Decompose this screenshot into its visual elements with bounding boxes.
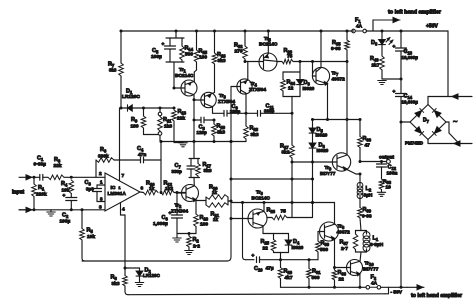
svg-text:1: 1 bbox=[100, 180, 103, 185]
svg-text:22: 22 bbox=[263, 246, 269, 252]
ground R38 bbox=[377, 191, 385, 193]
wire bridge top to +rail and AC input 1 bbox=[427, 97, 429, 105]
svg-text:D1: D1 bbox=[126, 89, 133, 95]
svg-text:R35: R35 bbox=[332, 40, 341, 46]
svg-text:75: 75 bbox=[281, 209, 287, 215]
svg-text:1k8: 1k8 bbox=[164, 124, 172, 130]
resistor R29 bbox=[280, 260, 282, 268]
svg-text:+: + bbox=[252, 254, 255, 259]
capacitor C5 bbox=[175, 31, 177, 38]
svg-text:R3: R3 bbox=[54, 157, 61, 163]
inductor L2 bbox=[359, 174, 361, 184]
capacitor C10 bbox=[256, 257, 258, 263]
svg-text:R33: R33 bbox=[338, 270, 347, 276]
svg-text:1k: 1k bbox=[213, 217, 219, 222]
svg-text:BDY77: BDY77 bbox=[320, 171, 336, 177]
svg-text:1k: 1k bbox=[212, 190, 218, 195]
wire bias rail bbox=[313, 119, 361, 121]
svg-text:75: 75 bbox=[287, 54, 293, 60]
transistor Tr5 bbox=[259, 53, 277, 71]
svg-text:270: 270 bbox=[235, 49, 243, 55]
resistor R27 bbox=[290, 145, 295, 158]
svg-text:10,000µ: 10,000µ bbox=[402, 100, 419, 105]
capacitor C11 bbox=[246, 112, 258, 114]
svg-text:+50V: +50V bbox=[426, 24, 438, 30]
wire top +50V rail bbox=[121, 30, 354, 32]
svg-text:4A: 4A bbox=[356, 24, 363, 30]
resistor R10 bbox=[144, 190, 159, 195]
svg-text:R8: R8 bbox=[111, 275, 118, 281]
wire input lower line to pin3 bbox=[19, 209, 105, 211]
wire Tr6 collector to R25 D4 bbox=[263, 233, 289, 235]
resistor R25 bbox=[273, 234, 275, 240]
wire R22 to Tr5 base and Tr4 emitter bbox=[244, 60, 247, 63]
op-amp IC1 LM301A bbox=[105, 173, 140, 211]
wire to op-amp pin2 bbox=[70, 176, 73, 179]
svg-text:output: output bbox=[379, 155, 394, 161]
resistor R12 bbox=[161, 190, 174, 195]
wire feedback node vertical bbox=[160, 142, 162, 193]
svg-text:C2: C2 bbox=[62, 213, 69, 219]
svg-text:100µ: 100µ bbox=[60, 219, 71, 225]
op-amp pin1 pin8 comp cap C3 bbox=[97, 184, 105, 186]
resistor R4 bbox=[70, 179, 72, 181]
wire node to R13 column bbox=[144, 107, 175, 109]
svg-text:10: 10 bbox=[386, 185, 392, 191]
node line C9 C11 bbox=[213, 112, 225, 114]
svg-text:L2: L2 bbox=[366, 186, 372, 192]
svg-text:0·68µ: 0·68µ bbox=[34, 162, 47, 168]
capacitor C8 bbox=[194, 119, 201, 121]
wire R16 bottom link bbox=[177, 233, 196, 235]
svg-text:Tr9: Tr9 bbox=[325, 165, 333, 171]
inductor L1 with R37 bbox=[356, 230, 367, 232]
svg-text:3k3: 3k3 bbox=[217, 130, 225, 136]
svg-text:input: input bbox=[12, 190, 25, 196]
svg-text:R26: R26 bbox=[284, 48, 293, 54]
svg-text:Tr1: Tr1 bbox=[179, 67, 187, 73]
transistor Tr7 bbox=[312, 67, 329, 84]
diode D8 LED bbox=[381, 31, 383, 40]
svg-text:Tr3: Tr3 bbox=[219, 93, 227, 99]
transistor Tr1 bbox=[181, 80, 197, 96]
resistor R39 bbox=[359, 198, 361, 208]
svg-text:2k7: 2k7 bbox=[372, 63, 380, 69]
resistor R24 bbox=[283, 71, 300, 73]
svg-text:6: 6 bbox=[141, 186, 144, 192]
capacitor C13 bbox=[400, 31, 402, 48]
transistor Tr3 bbox=[201, 92, 216, 107]
svg-text:10k: 10k bbox=[87, 234, 95, 240]
svg-text:560: 560 bbox=[312, 275, 320, 281]
svg-text:F1: F1 bbox=[355, 18, 361, 24]
resistor R6 feedback bbox=[95, 160, 97, 177]
op-amp pin6 output stub bbox=[140, 191, 144, 194]
svg-text:BDY77: BDY77 bbox=[363, 267, 379, 273]
capacitor C1 bbox=[33, 176, 36, 179]
resistor R13 bbox=[172, 110, 177, 121]
svg-text:330k: 330k bbox=[98, 154, 109, 160]
resistor R16 bbox=[194, 214, 199, 227]
svg-text:R39: R39 bbox=[363, 207, 372, 213]
op-amp pin4 wire bbox=[120, 203, 122, 216]
ground C6 bbox=[173, 237, 181, 239]
svg-text:BC214C: BC214C bbox=[259, 42, 278, 48]
svg-text:L1: L1 bbox=[373, 236, 379, 242]
svg-text:R36: R36 bbox=[363, 136, 372, 142]
svg-text:Tr10: Tr10 bbox=[365, 261, 375, 267]
svg-text:R31: R31 bbox=[312, 269, 321, 275]
diode D6 bbox=[309, 143, 316, 148]
svg-text:C6: C6 bbox=[162, 215, 169, 221]
svg-text:C10: C10 bbox=[254, 266, 263, 272]
diode D1 bbox=[120, 107, 123, 110]
wire AC input 2 bbox=[446, 121, 449, 123]
svg-text:R24: R24 bbox=[287, 80, 296, 86]
svg-text:R27: R27 bbox=[280, 144, 289, 150]
svg-text:2·2: 2·2 bbox=[193, 244, 200, 250]
svg-text:~: ~ bbox=[453, 117, 458, 126]
transistor Tr4 bbox=[237, 79, 252, 94]
svg-text:180: 180 bbox=[200, 222, 208, 228]
resistor R8 bbox=[124, 268, 126, 276]
svg-text:LR120C: LR120C bbox=[122, 94, 140, 100]
svg-text:IS920: IS920 bbox=[292, 245, 304, 250]
svg-text:3: 3 bbox=[99, 205, 102, 211]
svg-text:R37: R37 bbox=[340, 240, 349, 246]
svg-text:R13: R13 bbox=[178, 109, 187, 115]
resistor R36 bbox=[359, 120, 361, 137]
svg-text:R14: R14 bbox=[185, 46, 194, 52]
svg-text:10k: 10k bbox=[62, 188, 70, 194]
svg-text:47: 47 bbox=[365, 143, 371, 149]
svg-text:330p: 330p bbox=[172, 169, 183, 174]
svg-text:D7: D7 bbox=[423, 118, 430, 124]
wire Tr2 emitter bbox=[195, 200, 197, 214]
svg-text:100µ: 100µ bbox=[151, 54, 162, 60]
ground PSU 0V bbox=[382, 78, 401, 80]
transistor Tr2 bbox=[182, 185, 199, 202]
wire bias chain R24/D3 to R27 bbox=[291, 97, 293, 114]
svg-text:100n: 100n bbox=[387, 171, 398, 177]
svg-text:LR120C: LR120C bbox=[143, 273, 161, 278]
resistor R22 bbox=[244, 31, 246, 46]
svg-text:+: + bbox=[63, 194, 66, 199]
svg-text:R25: R25 bbox=[261, 239, 270, 245]
svg-text:1k: 1k bbox=[149, 186, 155, 192]
resistor R19 bbox=[213, 120, 215, 124]
resistor R2 bbox=[188, 234, 190, 237]
svg-text:R22: R22 bbox=[234, 43, 243, 49]
transistor Tr10 bbox=[347, 260, 363, 276]
svg-text:330p: 330p bbox=[230, 109, 241, 114]
svg-text:Tr7: Tr7 bbox=[332, 71, 340, 77]
wire -50V rail bbox=[281, 286, 367, 288]
fuse F1 bbox=[355, 30, 363, 32]
svg-text:1k2: 1k2 bbox=[165, 186, 173, 192]
resistor R1 bbox=[33, 177, 35, 184]
svg-text:3µH: 3µH bbox=[364, 193, 373, 199]
svg-text:C4: C4 bbox=[137, 146, 144, 152]
resistors R20 R21 parallel bbox=[205, 197, 207, 205]
svg-text:40872: 40872 bbox=[332, 77, 346, 83]
svg-text:+: + bbox=[393, 45, 396, 50]
wire pin4 R8 D2 node bbox=[124, 267, 127, 270]
svg-text:22k: 22k bbox=[54, 163, 62, 169]
svg-text:IS920: IS920 bbox=[316, 133, 328, 138]
svg-text:R16: R16 bbox=[200, 215, 209, 221]
wire Tr7 base tap bbox=[312, 62, 314, 77]
resistor R38 bbox=[379, 179, 384, 190]
svg-text:R1: R1 bbox=[38, 185, 45, 191]
svg-text:6·9µH: 6·9µH bbox=[370, 242, 384, 248]
svg-text:10,000µ: 10,000µ bbox=[402, 55, 419, 60]
svg-text:4k7: 4k7 bbox=[285, 275, 293, 281]
svg-text:7: 7 bbox=[122, 173, 125, 179]
ground input bbox=[50, 210, 52, 212]
svg-text:ZTX504: ZTX504 bbox=[249, 87, 266, 93]
output node bbox=[359, 160, 362, 163]
wire op-amp pin7 supply bbox=[119, 108, 121, 181]
svg-text:47µ: 47µ bbox=[266, 266, 274, 272]
ground R13 bbox=[179, 142, 187, 144]
svg-text:C1: C1 bbox=[37, 156, 44, 162]
resistor R31 bbox=[308, 260, 310, 269]
svg-text:LM301A: LM301A bbox=[108, 191, 127, 197]
svg-text:180: 180 bbox=[131, 124, 139, 130]
svg-text:Tr8: Tr8 bbox=[338, 224, 346, 230]
svg-text:R5: R5 bbox=[87, 228, 94, 234]
transistor Tr9 bbox=[332, 153, 350, 171]
resistor R5 bbox=[81, 208, 84, 211]
svg-text:3k3: 3k3 bbox=[251, 132, 259, 138]
svg-text:PM74ED: PM74ED bbox=[405, 141, 424, 146]
svg-text:R15: R15 bbox=[199, 49, 208, 55]
diode D5 bbox=[312, 120, 314, 129]
svg-text:22k: 22k bbox=[177, 116, 185, 122]
diode D4 bbox=[288, 234, 290, 241]
svg-text:R23: R23 bbox=[250, 126, 259, 132]
resistor R14 bbox=[181, 38, 183, 46]
svg-text:C3: C3 bbox=[85, 180, 92, 186]
svg-text:R12: R12 bbox=[164, 181, 173, 187]
fuse F2 bbox=[370, 286, 378, 288]
svg-text:R38: R38 bbox=[383, 179, 392, 185]
svg-text:4: 4 bbox=[122, 207, 125, 213]
svg-text:R29: R29 bbox=[284, 269, 293, 275]
svg-text:1,000µ: 1,000µ bbox=[153, 221, 168, 227]
svg-text:to left hand amplifier: to left hand amplifier bbox=[388, 10, 442, 16]
svg-text:Tr6: Tr6 bbox=[256, 190, 264, 196]
svg-text:to left hand amplifier: to left hand amplifier bbox=[411, 293, 462, 299]
svg-text:3k3: 3k3 bbox=[109, 68, 117, 73]
wire y202 link bbox=[230, 201, 232, 203]
wire y179 link bbox=[231, 178, 313, 180]
svg-text:0·08: 0·08 bbox=[331, 46, 341, 52]
resistor R7 bbox=[120, 31, 122, 63]
capacitor C6 bbox=[176, 193, 178, 215]
input terminals bbox=[19, 176, 33, 178]
svg-text:R6: R6 bbox=[100, 147, 107, 153]
svg-text:D8: D8 bbox=[371, 40, 378, 46]
ground R2 bbox=[185, 250, 193, 252]
svg-text:R18: R18 bbox=[217, 52, 226, 58]
svg-text:560: 560 bbox=[320, 247, 328, 253]
svg-text:4A: 4A bbox=[371, 281, 378, 287]
svg-text:R19: R19 bbox=[217, 124, 226, 130]
capacitor C9 bbox=[223, 111, 225, 117]
svg-text:0·08: 0·08 bbox=[362, 214, 372, 220]
svg-text:3k3: 3k3 bbox=[112, 281, 120, 287]
svg-text:120p: 120p bbox=[197, 130, 208, 135]
capacitor C12 bbox=[380, 160, 383, 163]
wire Tr9 base line bbox=[292, 161, 337, 163]
svg-text:BC214C: BC214C bbox=[175, 73, 194, 79]
wire C10 line bbox=[243, 203, 246, 260]
svg-text:40872: 40872 bbox=[337, 230, 351, 236]
svg-text:+: + bbox=[162, 43, 165, 48]
resistor R18 bbox=[214, 31, 216, 53]
svg-text:8: 8 bbox=[100, 197, 103, 202]
resistor R3 bbox=[48, 175, 64, 180]
svg-text:Tr2: Tr2 bbox=[175, 203, 183, 209]
svg-text:47n: 47n bbox=[138, 152, 146, 158]
capacitor C2 bbox=[66, 197, 77, 199]
svg-text:R40: R40 bbox=[370, 56, 379, 62]
svg-text:560: 560 bbox=[185, 52, 193, 58]
capacitor C7 / resistor R17 parallel bbox=[193, 142, 195, 159]
svg-text:+: + bbox=[169, 212, 172, 217]
svg-text:- 50V: - 50V bbox=[391, 290, 403, 296]
svg-text:ZTX304: ZTX304 bbox=[171, 209, 188, 215]
transistor Tr8 bbox=[320, 222, 339, 241]
capacitor C4 bbox=[140, 157, 142, 163]
svg-text:3k3: 3k3 bbox=[218, 58, 226, 64]
svg-text:3p3: 3p3 bbox=[86, 187, 94, 192]
svg-text:3k8: 3k8 bbox=[204, 168, 212, 174]
svg-text:R17: R17 bbox=[203, 162, 212, 168]
resistor R30 bbox=[317, 232, 319, 242]
wire to left hand amplifier top bbox=[372, 20, 374, 31]
svg-text:IS920: IS920 bbox=[317, 148, 329, 153]
svg-text:IS920: IS920 bbox=[303, 86, 315, 91]
resistor R26 bbox=[277, 61, 282, 63]
svg-text:R2: R2 bbox=[193, 237, 200, 243]
bridge rectifier D7 bbox=[401, 121, 410, 123]
capacitor C14 bbox=[400, 79, 402, 94]
wire bottom return line bbox=[128, 293, 385, 296]
preset R11 bbox=[159, 108, 161, 112]
svg-text:220k: 220k bbox=[36, 192, 47, 198]
svg-text:C5: C5 bbox=[152, 48, 159, 54]
diode D2 bbox=[125, 267, 140, 269]
svg-text:IC: IC bbox=[111, 185, 116, 191]
svg-text:R10: R10 bbox=[146, 181, 155, 187]
resistor R15 bbox=[196, 31, 198, 50]
diode D3 bbox=[299, 72, 301, 80]
svg-text:R9: R9 bbox=[131, 117, 138, 123]
resistor R28 bbox=[267, 217, 272, 219]
svg-text:+: + bbox=[393, 90, 396, 95]
wire bootstrap vertical bbox=[346, 62, 348, 120]
wire main vertical node column bbox=[227, 87, 231, 262]
resistor R9 bbox=[143, 108, 145, 116]
ground D2 bbox=[135, 282, 143, 284]
svg-text:100: 100 bbox=[199, 55, 207, 61]
svg-text:2: 2 bbox=[99, 171, 102, 177]
resistor R40 bbox=[380, 56, 385, 70]
svg-text:R4: R4 bbox=[61, 181, 68, 187]
node line mid bbox=[161, 141, 246, 143]
svg-text:22: 22 bbox=[339, 277, 345, 283]
svg-text:8k2: 8k2 bbox=[282, 150, 290, 156]
svg-text:R28: R28 bbox=[267, 208, 276, 214]
svg-text:330p: 330p bbox=[264, 109, 275, 114]
resistor R23 bbox=[245, 113, 247, 126]
svg-text:C12: C12 bbox=[388, 165, 397, 171]
svg-text:Tr4: Tr4 bbox=[250, 81, 258, 87]
svg-text:Tr5: Tr5 bbox=[264, 36, 272, 42]
svg-text:1: 1 bbox=[119, 186, 121, 190]
svg-text:F2: F2 bbox=[371, 275, 377, 281]
svg-text:R11: R11 bbox=[163, 117, 172, 123]
svg-text:2·7: 2·7 bbox=[341, 246, 348, 252]
svg-text:12: 12 bbox=[288, 86, 294, 92]
resistor R33 bbox=[334, 268, 336, 271]
resistor R35 bbox=[346, 31, 348, 40]
transistor Tr6 bbox=[248, 209, 267, 228]
svg-text:BC214C: BC214C bbox=[252, 196, 271, 202]
